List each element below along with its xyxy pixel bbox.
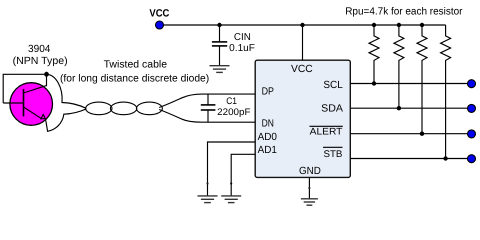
- transistor emitter arrowhead: [41, 115, 45, 119]
- svg-text:ALERT: ALERT: [310, 127, 343, 138]
- twisted cable loop 1: [86, 102, 112, 115]
- node junction CIN tap: [217, 23, 221, 27]
- transistor collector lead: [24, 72, 47, 93]
- ground (AD0): [198, 196, 218, 203]
- svg-text:C1: C1: [226, 96, 237, 107]
- wire SCL line: [350, 83, 467, 85]
- resistor R4 (pull-up STB): [441, 25, 451, 159]
- twisted cable loop 3: [136, 102, 162, 115]
- VCC terminal blue dot: [156, 21, 164, 29]
- svg-text:3904: 3904: [28, 44, 51, 55]
- wire base-collector short loop: [3, 74, 44, 103]
- wire AD1 to ground: [231, 154, 255, 195]
- wire bottom conductor (emitter to twisted pair): [45, 109, 86, 131]
- svg-text:STB: STB: [324, 149, 343, 160]
- node junction R4-STB: [443, 156, 447, 160]
- ground (GND pin): [301, 199, 318, 205]
- resistor R1 (pull-up SCL): [369, 25, 379, 84]
- svg-text:SCL: SCL: [323, 80, 343, 91]
- STB terminal blue dot: [468, 155, 476, 163]
- SDA terminal blue dot: [468, 104, 476, 112]
- capacitor C1: [201, 94, 216, 122]
- node junction R3 tap: [420, 23, 424, 27]
- node nub AD0 wire: [206, 182, 208, 184]
- svg-text:2200pF: 2200pF: [217, 107, 250, 118]
- resistor R3 (pull-up ALERT): [417, 25, 427, 134]
- node junction collector-base: [44, 72, 49, 77]
- svg-text:(for long distance discrete di: (for long distance discrete diode): [60, 74, 209, 85]
- svg-text:(NPN Type): (NPN Type): [13, 56, 68, 67]
- IC U1 body: [255, 60, 350, 177]
- node nub GND wire: [308, 187, 310, 189]
- node junction R2 tap: [397, 23, 401, 27]
- ground (CIN): [210, 66, 230, 73]
- svg-text:Rpu=4.7k for each resistor: Rpu=4.7k for each resistor: [345, 6, 463, 17]
- transistor Q1 body (diode connected 2N3904): [10, 83, 53, 126]
- node junction IC VCC tap: [300, 23, 304, 27]
- wire GND pin down: [308, 177, 310, 198]
- svg-text:0.1uF: 0.1uF: [229, 43, 255, 54]
- wire STB line: [350, 158, 467, 160]
- transistor base bar: [23, 89, 25, 116]
- transistor base lead: [3, 102, 23, 104]
- svg-text:Twisted cable: Twisted cable: [104, 59, 168, 70]
- wire SDA line: [350, 107, 467, 109]
- node junction R2-SDA: [397, 106, 401, 110]
- capacitor CIN: [212, 25, 227, 65]
- resistor R2 (pull-up SDA): [394, 25, 404, 108]
- svg-text:DN: DN: [262, 118, 274, 129]
- wire VCC pin to rail: [302, 25, 304, 60]
- node junction R3-ALERT: [420, 132, 424, 136]
- wire DP conductor (right funnel top): [159, 94, 255, 107]
- svg-text:VCC: VCC: [149, 7, 169, 19]
- transistor emitter lead: [24, 107, 42, 118]
- ground (AD1): [221, 196, 241, 203]
- svg-text:AD0: AD0: [258, 132, 278, 143]
- svg-text:SDA: SDA: [321, 103, 343, 114]
- node junction R1-SCL: [372, 81, 376, 85]
- ALERT terminal blue dot: [468, 130, 476, 138]
- wire VCC rail: [164, 24, 446, 26]
- svg-text:AD1: AD1: [258, 145, 278, 156]
- svg-text:GND: GND: [299, 166, 321, 177]
- svg-text:CIN: CIN: [234, 32, 251, 43]
- wire top conductor (collector to twisted pair): [47, 74, 87, 108]
- svg-text:VCC: VCC: [291, 64, 313, 75]
- wire ALERT line: [350, 133, 467, 135]
- svg-text:DP: DP: [262, 87, 274, 98]
- wire AD0 to ground: [208, 142, 256, 196]
- node nub AD1 wire: [230, 182, 232, 184]
- twisted cable loop 2: [110, 102, 136, 115]
- node junction R1 tap: [372, 23, 376, 27]
- SCL terminal blue dot: [468, 80, 476, 88]
- wire DN conductor (right funnel bottom): [159, 110, 255, 123]
